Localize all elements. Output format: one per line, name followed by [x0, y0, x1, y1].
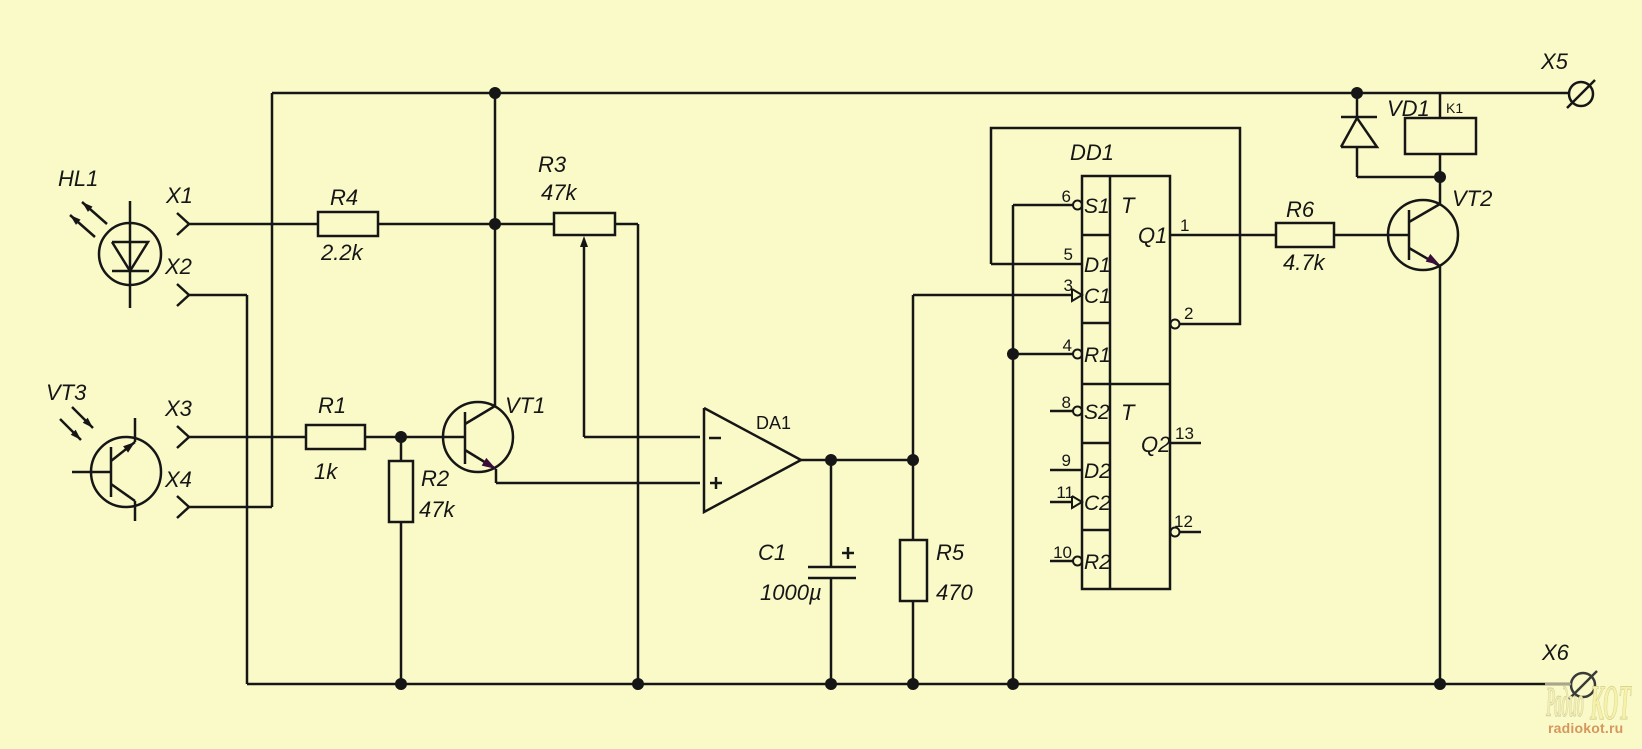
wire base node to VT1 [401, 436, 465, 439]
label X5 [1540, 49, 1569, 74]
pin number 13 [1175, 424, 1194, 443]
svg-text:8: 8 [1062, 393, 1071, 412]
wire DA1 output to DD1 C1 input [913, 294, 1073, 297]
svg-text:C1: C1 [758, 540, 786, 565]
junction DD1 riser bottom bus [1007, 678, 1019, 690]
svg-text:Q1: Q1 [1138, 223, 1167, 248]
stub pin 12 inverted [1171, 528, 1202, 537]
label X1 [165, 183, 193, 208]
wire X4 riser from top bus [271, 93, 274, 507]
svg-text:X1: X1 [165, 183, 193, 208]
pin number 2 [1184, 304, 1193, 323]
label S1 [1084, 195, 1110, 218]
value C1 1000µ [760, 580, 822, 605]
svg-text:13: 13 [1175, 424, 1194, 443]
svg-text:X3: X3 [164, 396, 193, 421]
svg-text:T: T [1121, 400, 1136, 425]
svg-text:S2: S2 [1084, 401, 1110, 424]
svg-text:R3: R3 [538, 152, 567, 177]
svg-text:HL1: HL1 [58, 166, 98, 191]
resistor R5 [900, 540, 927, 684]
pin number 5 [1064, 245, 1073, 264]
junction R2 bottom bus [395, 678, 407, 690]
pin number 10 [1053, 543, 1072, 562]
stub Q2 pin 13 [1170, 442, 1201, 445]
svg-text:1000µ: 1000µ [760, 580, 822, 605]
label VD1 [1387, 96, 1430, 121]
svg-text:47k: 47k [419, 497, 455, 522]
label X3 [164, 396, 193, 421]
resistor R3 (trimmer) [554, 213, 638, 235]
transistor VT1 [443, 402, 513, 483]
label R4 [330, 185, 358, 210]
junction R5 bottom bus [907, 678, 919, 690]
wire S1 pin 6 and riser [1013, 201, 1082, 685]
label K1 [1446, 100, 1463, 116]
label R2 [421, 466, 449, 491]
pin number 8 [1062, 393, 1071, 412]
label D2 [1084, 460, 1111, 483]
label T flip-flop 1 [1121, 193, 1136, 218]
svg-text:D1: D1 [1084, 254, 1111, 277]
svg-text:470: 470 [936, 580, 973, 605]
label HL1 [58, 166, 98, 191]
pin number 4 [1063, 336, 1072, 355]
svg-text:R2: R2 [421, 466, 449, 491]
resistor R6 [1276, 223, 1409, 247]
svg-text:4.7k: 4.7k [1283, 250, 1326, 275]
label DD1 [1070, 140, 1114, 165]
label DA1 [756, 413, 791, 433]
dynamic input mark C1 [1072, 289, 1082, 301]
IC DD1 body [1082, 176, 1170, 589]
label R1 input [1084, 344, 1111, 367]
svg-text:1: 1 [1180, 216, 1189, 235]
wire R3 right riser to bottom bus [637, 224, 640, 684]
svg-text:5: 5 [1064, 245, 1073, 264]
label X6 [1541, 640, 1570, 665]
label X2 [164, 254, 192, 279]
resistor R1 [306, 425, 401, 449]
value R2 47k [419, 497, 455, 522]
wire D1 pin 5 (from feedback) [991, 263, 1082, 266]
label R1 [318, 393, 346, 418]
feedback loop pin2 to D1 [991, 128, 1240, 329]
svg-text:12: 12 [1174, 512, 1193, 531]
svg-text:X5: X5 [1540, 49, 1569, 74]
svg-text:VT2: VT2 [1452, 186, 1492, 211]
junction VT2 emitter bottom bus [1434, 678, 1446, 690]
value R6 4.7k [1283, 250, 1326, 275]
label T flip-flop 2 [1121, 400, 1136, 425]
phototransistor VT3 [60, 407, 161, 521]
capacitor C1 [808, 460, 856, 684]
svg-text:9: 9 [1062, 451, 1071, 470]
op-amp DA1 [704, 408, 801, 512]
label X4 [164, 467, 192, 492]
label Q2 [1141, 432, 1170, 457]
watermark РадиоКОТ [1546, 674, 1632, 730]
svg-text:47k: 47k [541, 180, 577, 205]
label VT3 [46, 380, 87, 405]
label C2 input [1084, 492, 1111, 515]
wire grey tail to X6 [1545, 683, 1571, 686]
wire DA1 output [801, 459, 913, 462]
pin number 1 [1180, 216, 1189, 235]
svg-text:2.2k: 2.2k [320, 240, 364, 265]
pin number 11 [1056, 483, 1074, 502]
value R5 470 [936, 580, 973, 605]
svg-text:2: 2 [1184, 304, 1193, 323]
label R3 [538, 152, 567, 177]
stub D2 pin 9 [1050, 469, 1082, 472]
junction top bus VD1 cathode [1351, 87, 1363, 99]
resistor R4 [318, 212, 554, 236]
stub R2 pin 10 [1050, 557, 1082, 566]
connector X3 [177, 426, 306, 448]
junction R4-R3 node [489, 218, 501, 230]
wire wiper to DA1 inverting input [584, 436, 700, 439]
label D1 [1084, 254, 1111, 277]
wire output node to R5 [912, 295, 915, 540]
svg-text:X4: X4 [164, 467, 192, 492]
pin number 9 [1062, 451, 1071, 470]
diode VD1 [1341, 93, 1440, 177]
wire collector riser [494, 93, 497, 406]
pin number 6 [1062, 187, 1071, 206]
junction VD1 anode / relay / VT2 collector [1434, 171, 1446, 183]
svg-text:R4: R4 [330, 185, 358, 210]
wire bottom bus [247, 683, 1571, 686]
svg-text:DD1: DD1 [1070, 140, 1114, 165]
svg-text:6: 6 [1062, 187, 1071, 206]
label R5 [936, 540, 965, 565]
wire top supply bus [272, 92, 1569, 95]
label S2 [1084, 401, 1110, 424]
svg-text:S1: S1 [1084, 195, 1110, 218]
resistor R2 [389, 437, 413, 684]
value R3 47k [541, 180, 577, 205]
svg-text:3: 3 [1064, 276, 1073, 295]
LED HL1 [70, 201, 161, 308]
connector X1 [177, 213, 318, 235]
svg-text:10: 10 [1053, 543, 1072, 562]
wire X2 riser to bottom bus [246, 295, 249, 684]
wiper arrow of R3 [580, 236, 588, 437]
svg-text:VT3: VT3 [46, 380, 87, 405]
connector X2 [177, 284, 247, 306]
pin number 12 [1174, 512, 1193, 531]
svg-text:VT1: VT1 [505, 393, 545, 418]
svg-text:R6: R6 [1286, 197, 1315, 222]
label C1 input [1084, 285, 1111, 308]
watermark radiokot.ru [1548, 720, 1625, 736]
label R2 input [1084, 551, 1111, 574]
junction R1/R2/VT1 base [395, 431, 407, 443]
svg-text:R1: R1 [1084, 344, 1111, 367]
connector X4 [177, 496, 272, 518]
svg-text:X2: X2 [164, 254, 192, 279]
terminal X5 [1567, 80, 1595, 108]
label VT2 [1452, 186, 1492, 211]
junction S1 riser / R1 pin [1007, 348, 1019, 360]
svg-text:C1: C1 [1084, 285, 1111, 308]
svg-text:R1: R1 [318, 393, 346, 418]
svg-text:C2: C2 [1084, 492, 1111, 515]
transistor VT2 [1388, 177, 1458, 684]
svg-text:DA1: DA1 [756, 413, 791, 433]
relay coil K1 [1405, 93, 1476, 177]
svg-text:X6: X6 [1541, 640, 1570, 665]
label C1 [758, 540, 786, 565]
svg-text:Q2: Q2 [1141, 432, 1170, 457]
svg-text:4: 4 [1063, 336, 1072, 355]
terminal X6 [1569, 671, 1597, 699]
svg-text:R2: R2 [1084, 551, 1111, 574]
junction output/C1 [825, 454, 837, 466]
label Q1 [1138, 223, 1167, 248]
svg-text:1k: 1k [314, 459, 338, 484]
svg-text:K1: K1 [1446, 100, 1463, 116]
junction R3 riser bottom bus [632, 678, 644, 690]
wire VT1 emitter to DA1 non-inverting input [496, 482, 700, 485]
wire Q1 pin 1 to R6 [1170, 234, 1276, 237]
value R1 1k [314, 459, 338, 484]
junction output/R5 riser [907, 454, 919, 466]
junction top bus / collector riser [489, 87, 501, 99]
label R6 [1286, 197, 1315, 222]
svg-text:D2: D2 [1084, 460, 1111, 483]
svg-text:11: 11 [1056, 483, 1074, 502]
svg-text:R5: R5 [936, 540, 965, 565]
wire R1 pin 4 [1013, 350, 1082, 359]
stub C2 pin 11 dynamic [1050, 496, 1082, 508]
svg-text:radiokot.ru: radiokot.ru [1548, 720, 1625, 736]
svg-text:T: T [1121, 193, 1136, 218]
stub S2 pin 8 [1050, 407, 1082, 416]
pin number 3 [1064, 276, 1073, 295]
label VT1 [505, 393, 545, 418]
value R4 2.2k [320, 240, 364, 265]
junction C1 bottom bus [825, 678, 837, 690]
